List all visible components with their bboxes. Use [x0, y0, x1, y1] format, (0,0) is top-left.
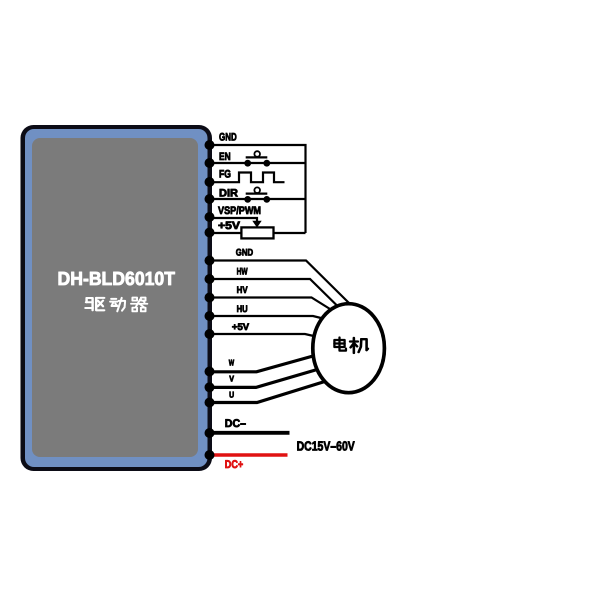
svg-text:HW: HW [237, 266, 249, 277]
svg-text:+5V: +5V [232, 322, 250, 333]
svg-text:DC–: DC– [225, 418, 246, 430]
svg-text:U: U [229, 390, 234, 400]
svg-text:EN: EN [219, 151, 231, 163]
svg-text:HU: HU [237, 304, 248, 315]
svg-text:DC+: DC+ [225, 459, 244, 471]
svg-text:VSP/PWM: VSP/PWM [218, 205, 261, 217]
svg-text:W: W [229, 357, 234, 367]
svg-text:FG: FG [219, 169, 231, 181]
svg-text:+5V: +5V [218, 220, 241, 232]
svg-text:HV: HV [237, 285, 248, 296]
svg-text:V: V [229, 373, 234, 383]
svg-text:GND: GND [236, 248, 253, 259]
svg-text:DIR: DIR [219, 187, 238, 199]
svg-text:DH-BLD6010T: DH-BLD6010T [58, 269, 176, 290]
svg-text:GND: GND [219, 131, 237, 143]
svg-text:DC15V–60V: DC15V–60V [297, 439, 355, 454]
